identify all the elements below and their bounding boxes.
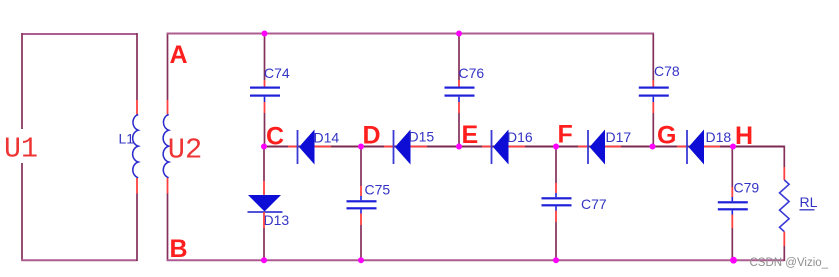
pin stub C77 top (red)	[555, 183, 557, 193]
capacitor C75 branch: wire from node D down	[360, 147, 362, 187]
source U1 loop top wire	[22, 33, 138, 35]
svg-text:H: H	[735, 122, 753, 150]
svg-text:F: F	[558, 121, 573, 149]
pin stub C75 top (red)	[360, 186, 362, 196]
pin stub C74 top (red)	[264, 80, 266, 87]
pin stub C78 top (red)	[652, 80, 654, 87]
pin stub C78 bottom (red)	[652, 102, 654, 113]
capacitor C79	[718, 197, 748, 215]
pin stub D13 cathode (red)	[263, 212, 265, 228]
diode D13 branch: wire from node C down	[263, 147, 265, 182]
diode D14	[298, 130, 315, 165]
diode D15	[394, 130, 411, 165]
capacitor C76 branch: wire from top rail	[458, 34, 460, 81]
svg-text:D13: D13	[264, 212, 290, 228]
wire C77 to bottom rail	[555, 222, 557, 260]
svg-text:E: E	[462, 121, 479, 149]
pin stub primary top (red)	[136, 100, 138, 115]
capacitor C77 branch: wire from node F down	[555, 147, 557, 184]
source U1 loop left wire lower	[21, 163, 23, 261]
junction node H	[730, 144, 736, 150]
wire C74 to node C	[264, 113, 266, 147]
svg-text:C: C	[266, 123, 284, 151]
wire H to right corner	[733, 146, 784, 148]
pin stub C74 bottom (red)	[264, 102, 266, 113]
junction dot bottom rail at C77	[553, 257, 559, 263]
pin stub primary bottom (red)	[136, 178, 138, 194]
pin stub RL top (red)	[783, 167, 785, 180]
svg-text:D14: D14	[314, 130, 340, 146]
pin stub secondary bottom (red)	[167, 178, 169, 194]
svg-text:C75: C75	[365, 182, 391, 198]
load branch: wire right corner down	[783, 146, 785, 167]
svg-text:B: B	[170, 235, 188, 263]
wire primary top	[136, 33, 138, 100]
wire C75 to bottom rail	[360, 225, 362, 260]
capacitor C79 branch: wire from node H down	[731, 147, 733, 188]
mid rail wire C..H	[264, 146, 733, 148]
inductor L1 (primary coil)	[133, 115, 139, 178]
bottom rail wire	[167, 259, 785, 261]
junction dot bottom rail at D13	[261, 257, 267, 263]
junction node E	[456, 144, 462, 150]
svg-text:C74: C74	[264, 65, 290, 81]
junction node G	[650, 144, 656, 150]
wire D13 to bottom rail	[263, 228, 265, 260]
svg-text:D17: D17	[606, 129, 632, 145]
wire primary bottom	[136, 194, 138, 262]
wire C76 to node E	[458, 113, 460, 147]
svg-text:D: D	[363, 122, 381, 150]
diode D16	[492, 130, 509, 165]
capacitor C74	[250, 87, 280, 103]
diode D17	[588, 130, 605, 165]
pin stub C79 top (red)	[731, 187, 733, 197]
junction dot top rail at C74	[262, 31, 268, 37]
pin stub D13 anode (red)	[263, 181, 265, 196]
svg-text:C79: C79	[734, 180, 760, 196]
diode D17 pin stub left (red)	[578, 146, 588, 148]
pin stub C76 bottom (red)	[458, 102, 460, 113]
junction dot bottom rail at C75	[358, 257, 364, 263]
resistor RL	[780, 180, 790, 232]
pin stub C76 top (red)	[458, 80, 460, 87]
diode D18	[687, 130, 704, 165]
wire secondary bottom	[167, 194, 169, 262]
capacitor C74 branch: wire from top rail	[264, 34, 266, 81]
source U1 loop bottom wire	[22, 259, 138, 261]
svg-text:C77: C77	[581, 196, 607, 212]
diode D14 pin stub left (red)	[288, 146, 298, 148]
pin stub C79 bottom (red)	[731, 215, 733, 229]
junction dot bottom rail at C79	[730, 257, 737, 264]
diode D14 pin stub right (red)	[314, 146, 331, 148]
svg-text:G: G	[657, 122, 676, 150]
capacitor C78 branch: wire from top rail	[652, 34, 654, 81]
junction dot top rail at C76	[456, 31, 462, 37]
svg-text:CSDN @Vizio_: CSDN @Vizio_	[750, 257, 829, 269]
diode D15 pin stub left (red)	[384, 146, 394, 148]
svg-text:U1: U1	[4, 133, 38, 166]
wire RL to bottom rail	[783, 246, 785, 261]
capacitor C78	[639, 87, 669, 103]
diode D18 pin stub left (red)	[677, 146, 687, 148]
wire C78 to node G	[652, 113, 654, 147]
wire C79 to bottom rail	[731, 228, 733, 260]
svg-text:A: A	[170, 41, 188, 69]
pin stub C75 bottom (red)	[360, 214, 362, 226]
diode D15 pin stub right (red)	[410, 146, 427, 148]
svg-text:D18: D18	[706, 129, 732, 145]
capacitor C76	[445, 87, 475, 103]
junction node D	[358, 144, 364, 150]
wire secondary top	[167, 33, 169, 100]
svg-text:C76: C76	[459, 65, 485, 81]
diode D13	[248, 195, 283, 212]
junction node F	[553, 144, 559, 150]
svg-text:D16: D16	[507, 129, 533, 145]
diode D16 pin stub left (red)	[482, 146, 492, 148]
capacitor C77	[542, 193, 572, 211]
diode D18 pin stub right (red)	[704, 146, 721, 148]
top rail wire	[167, 33, 654, 35]
pin stub secondary top (red)	[167, 100, 169, 115]
pin stub RL bottom (red)	[783, 232, 785, 246]
inductor U2 (secondary coil)	[163, 115, 169, 178]
source U1 loop left wire upper	[21, 33, 23, 129]
svg-text:U2: U2	[168, 134, 203, 167]
diode D16 pin stub right (red)	[508, 146, 525, 148]
pin stub C77 bottom (red)	[555, 211, 557, 223]
diode D17 pin stub right (red)	[605, 146, 622, 148]
svg-text:D15: D15	[409, 129, 435, 145]
capacitor C75	[347, 196, 377, 214]
svg-text:L1: L1	[119, 131, 135, 147]
svg-text:C78: C78	[654, 63, 680, 79]
svg-text:RL: RL	[800, 194, 818, 210]
junction node C	[261, 144, 267, 150]
